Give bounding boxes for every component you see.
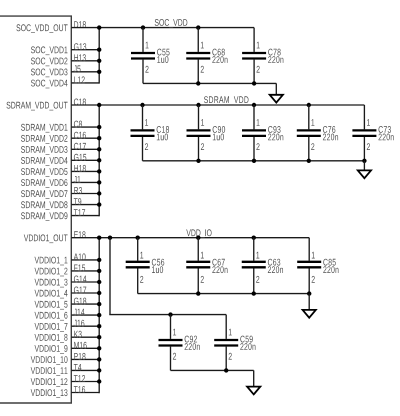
junction SOC bus/rail bbox=[97, 25, 101, 29]
capacitor C93 (220n) bbox=[242, 105, 283, 161]
pin T16 (VDDIO1_13) bbox=[31, 386, 100, 398]
wire VDDIO ground rail bbox=[138, 293, 310, 295]
pin C17 (SDRAM_VDD3) bbox=[21, 143, 99, 155]
capacitor C85 (220n) bbox=[297, 238, 338, 294]
junction C55/rail bbox=[141, 25, 145, 29]
junction VDDIO bus T12 bbox=[97, 379, 101, 383]
pin G14 (VDDIO1_3) bbox=[35, 276, 100, 288]
junction C68/gnd bbox=[196, 81, 200, 85]
junction C93/rail bbox=[252, 103, 256, 107]
junction VDDIO bus P18 bbox=[97, 357, 101, 361]
junction SDRAM bus H18 bbox=[97, 169, 101, 173]
pin M16 (VDDIO1_9) bbox=[35, 342, 100, 354]
junction C63/rail bbox=[252, 236, 256, 240]
component box (IC, left edge cropped) bbox=[0, 16, 71, 403]
pin A10 (VDDIO1_1) bbox=[35, 253, 100, 265]
wire SDRAM pin bus bbox=[98, 105, 100, 216]
wire VDDIO pin bus bbox=[98, 238, 100, 394]
capacitor C18 (1u0) bbox=[131, 105, 170, 161]
junction C67/gnd bbox=[196, 291, 200, 295]
ground VDD_IO section bbox=[303, 310, 316, 318]
junction VDDIO bus T4 bbox=[97, 368, 101, 372]
capacitor C55 (1u0) bbox=[131, 28, 170, 84]
net label SDRAM_VDD bbox=[204, 96, 248, 105]
junction VDDIO bus F15 bbox=[97, 269, 101, 273]
ground SDRAM_VDD section bbox=[358, 170, 371, 178]
junction C90/gnd bbox=[196, 159, 200, 163]
capacitor C63 (220n) bbox=[242, 238, 283, 294]
capacitor C92 (220n) bbox=[159, 315, 200, 371]
junction VDDIO bus M16 bbox=[97, 346, 101, 350]
junction C92/rail bbox=[168, 312, 172, 316]
pin J16 (VDDIO1_7) bbox=[35, 320, 100, 332]
junction C63/gnd bbox=[252, 291, 256, 295]
wire row2 rail bbox=[109, 314, 226, 316]
wire SDRAM ground stem bbox=[363, 161, 365, 171]
pin L12 (SOC_VDD4) bbox=[31, 76, 99, 88]
wire row2 feed vertical bbox=[109, 238, 111, 315]
pin J1 (SDRAM_VDD6) bbox=[21, 176, 99, 188]
net label VDD_IO bbox=[186, 229, 211, 238]
capacitor C73 (220n) bbox=[352, 105, 393, 161]
capacitor C78 (220n) bbox=[242, 28, 283, 84]
junction SDRAM bus R3 bbox=[97, 191, 101, 195]
pin C18 (SDRAM_VDD_OUT) bbox=[6, 99, 85, 111]
wire SOC_VDD rail bbox=[71, 27, 254, 29]
wire SOC pin bus bbox=[98, 28, 100, 84]
ground row2 bbox=[247, 387, 260, 395]
pin C16 (SDRAM_VDD2) bbox=[21, 132, 99, 144]
pin G13 (SOC_VDD1) bbox=[31, 43, 99, 55]
capacitor C67 (220n) bbox=[186, 238, 227, 294]
capacitor C68 (220n) bbox=[186, 28, 227, 84]
junction SDRAM bus C17 bbox=[97, 147, 101, 151]
wire VDD_IO rail bbox=[71, 237, 309, 239]
junction VDDIO bus/rail bbox=[97, 236, 101, 240]
junction SOC bus H13 bbox=[97, 59, 101, 63]
net label SOC_VDD bbox=[155, 19, 188, 28]
wire row2 ground stem bbox=[253, 370, 255, 386]
junction C85/gnd bbox=[307, 291, 311, 295]
junction SDRAM bus J1 bbox=[97, 180, 101, 184]
junction VDDIO bus J16 bbox=[97, 324, 101, 328]
pin R3 (SDRAM_VDD7) bbox=[21, 187, 99, 199]
junction C18/rail bbox=[140, 103, 144, 107]
capacitor C90 (1u0) bbox=[187, 105, 226, 161]
capacitor C59 (220n) bbox=[214, 315, 255, 371]
junction SOC bus J5 bbox=[97, 70, 101, 74]
junction C76/gnd bbox=[307, 159, 311, 163]
pin T9 (SDRAM_VDD8) bbox=[21, 198, 99, 210]
pin F15 (VDDIO1_2) bbox=[35, 265, 100, 277]
junction row2 feed/rail bbox=[108, 236, 112, 240]
junction VDDIO bus K3 bbox=[97, 335, 101, 339]
ground SOC_VDD section bbox=[270, 95, 283, 103]
junction C68/rail bbox=[196, 25, 200, 29]
pin T12 (VDDIO1_12) bbox=[31, 375, 100, 387]
junction C59/gnd bbox=[224, 368, 228, 372]
pin G18 (VDDIO1_5) bbox=[35, 298, 100, 310]
pin H13 (SOC_VDD2) bbox=[31, 54, 99, 66]
capacitor C76 (220n) bbox=[297, 105, 338, 161]
junction C67/rail bbox=[196, 236, 200, 240]
pin P18 (VDDIO1_10) bbox=[31, 353, 100, 365]
junction VDDIO bus J14 bbox=[97, 313, 101, 317]
junction SOC bus G13 bbox=[97, 48, 101, 52]
pin J14 (VDDIO1_6) bbox=[35, 309, 100, 321]
wire SOC ground rail bbox=[143, 82, 276, 84]
junction C56/rail bbox=[136, 236, 140, 240]
wire SDRAM_VDD rail bbox=[71, 104, 364, 106]
wire row2 ground rail bbox=[171, 369, 254, 371]
junction C93/gnd bbox=[252, 159, 256, 163]
wire SOC ground stem bbox=[275, 83, 277, 94]
junction VDDIO bus A10 bbox=[97, 258, 101, 262]
wire SDRAM ground rail bbox=[143, 160, 365, 162]
junction C90/rail bbox=[196, 103, 200, 107]
junction SDRAM bus C8 bbox=[97, 125, 101, 129]
pin J5 (SOC_VDD3) bbox=[31, 65, 99, 77]
capacitor C56 (1u0) bbox=[126, 238, 165, 294]
pin C8 (SDRAM_VDD1) bbox=[21, 121, 99, 133]
junction VDDIO bus G17 bbox=[97, 291, 101, 295]
pin G15 (SDRAM_VDD4) bbox=[21, 154, 99, 166]
junction C76/rail bbox=[307, 103, 311, 107]
junction VDDIO bus G18 bbox=[97, 302, 101, 306]
junction SDRAM bus T9 bbox=[97, 202, 101, 206]
junction VDDIO bus G14 bbox=[97, 280, 101, 284]
junction SDRAM bus/rail bbox=[97, 103, 101, 107]
pin T17 (SDRAM_VDD9) bbox=[21, 209, 99, 221]
wire VDDIO ground stem bbox=[308, 294, 310, 310]
pin D18 (SOC_VDD_OUT) bbox=[16, 21, 85, 33]
junction C73/gnd bbox=[362, 159, 366, 163]
junction SDRAM bus C16 bbox=[97, 136, 101, 140]
pin E18 (VDDIO1_OUT) bbox=[24, 231, 86, 243]
pin K3 (VDDIO1_8) bbox=[35, 331, 100, 343]
junction C78/gnd bbox=[252, 81, 256, 85]
pin G17 (VDDIO1_4) bbox=[35, 287, 100, 299]
junction SDRAM bus G15 bbox=[97, 158, 101, 162]
pin T4 (VDDIO1_11) bbox=[31, 364, 100, 376]
pin H18 (SDRAM_VDD5) bbox=[21, 165, 99, 177]
